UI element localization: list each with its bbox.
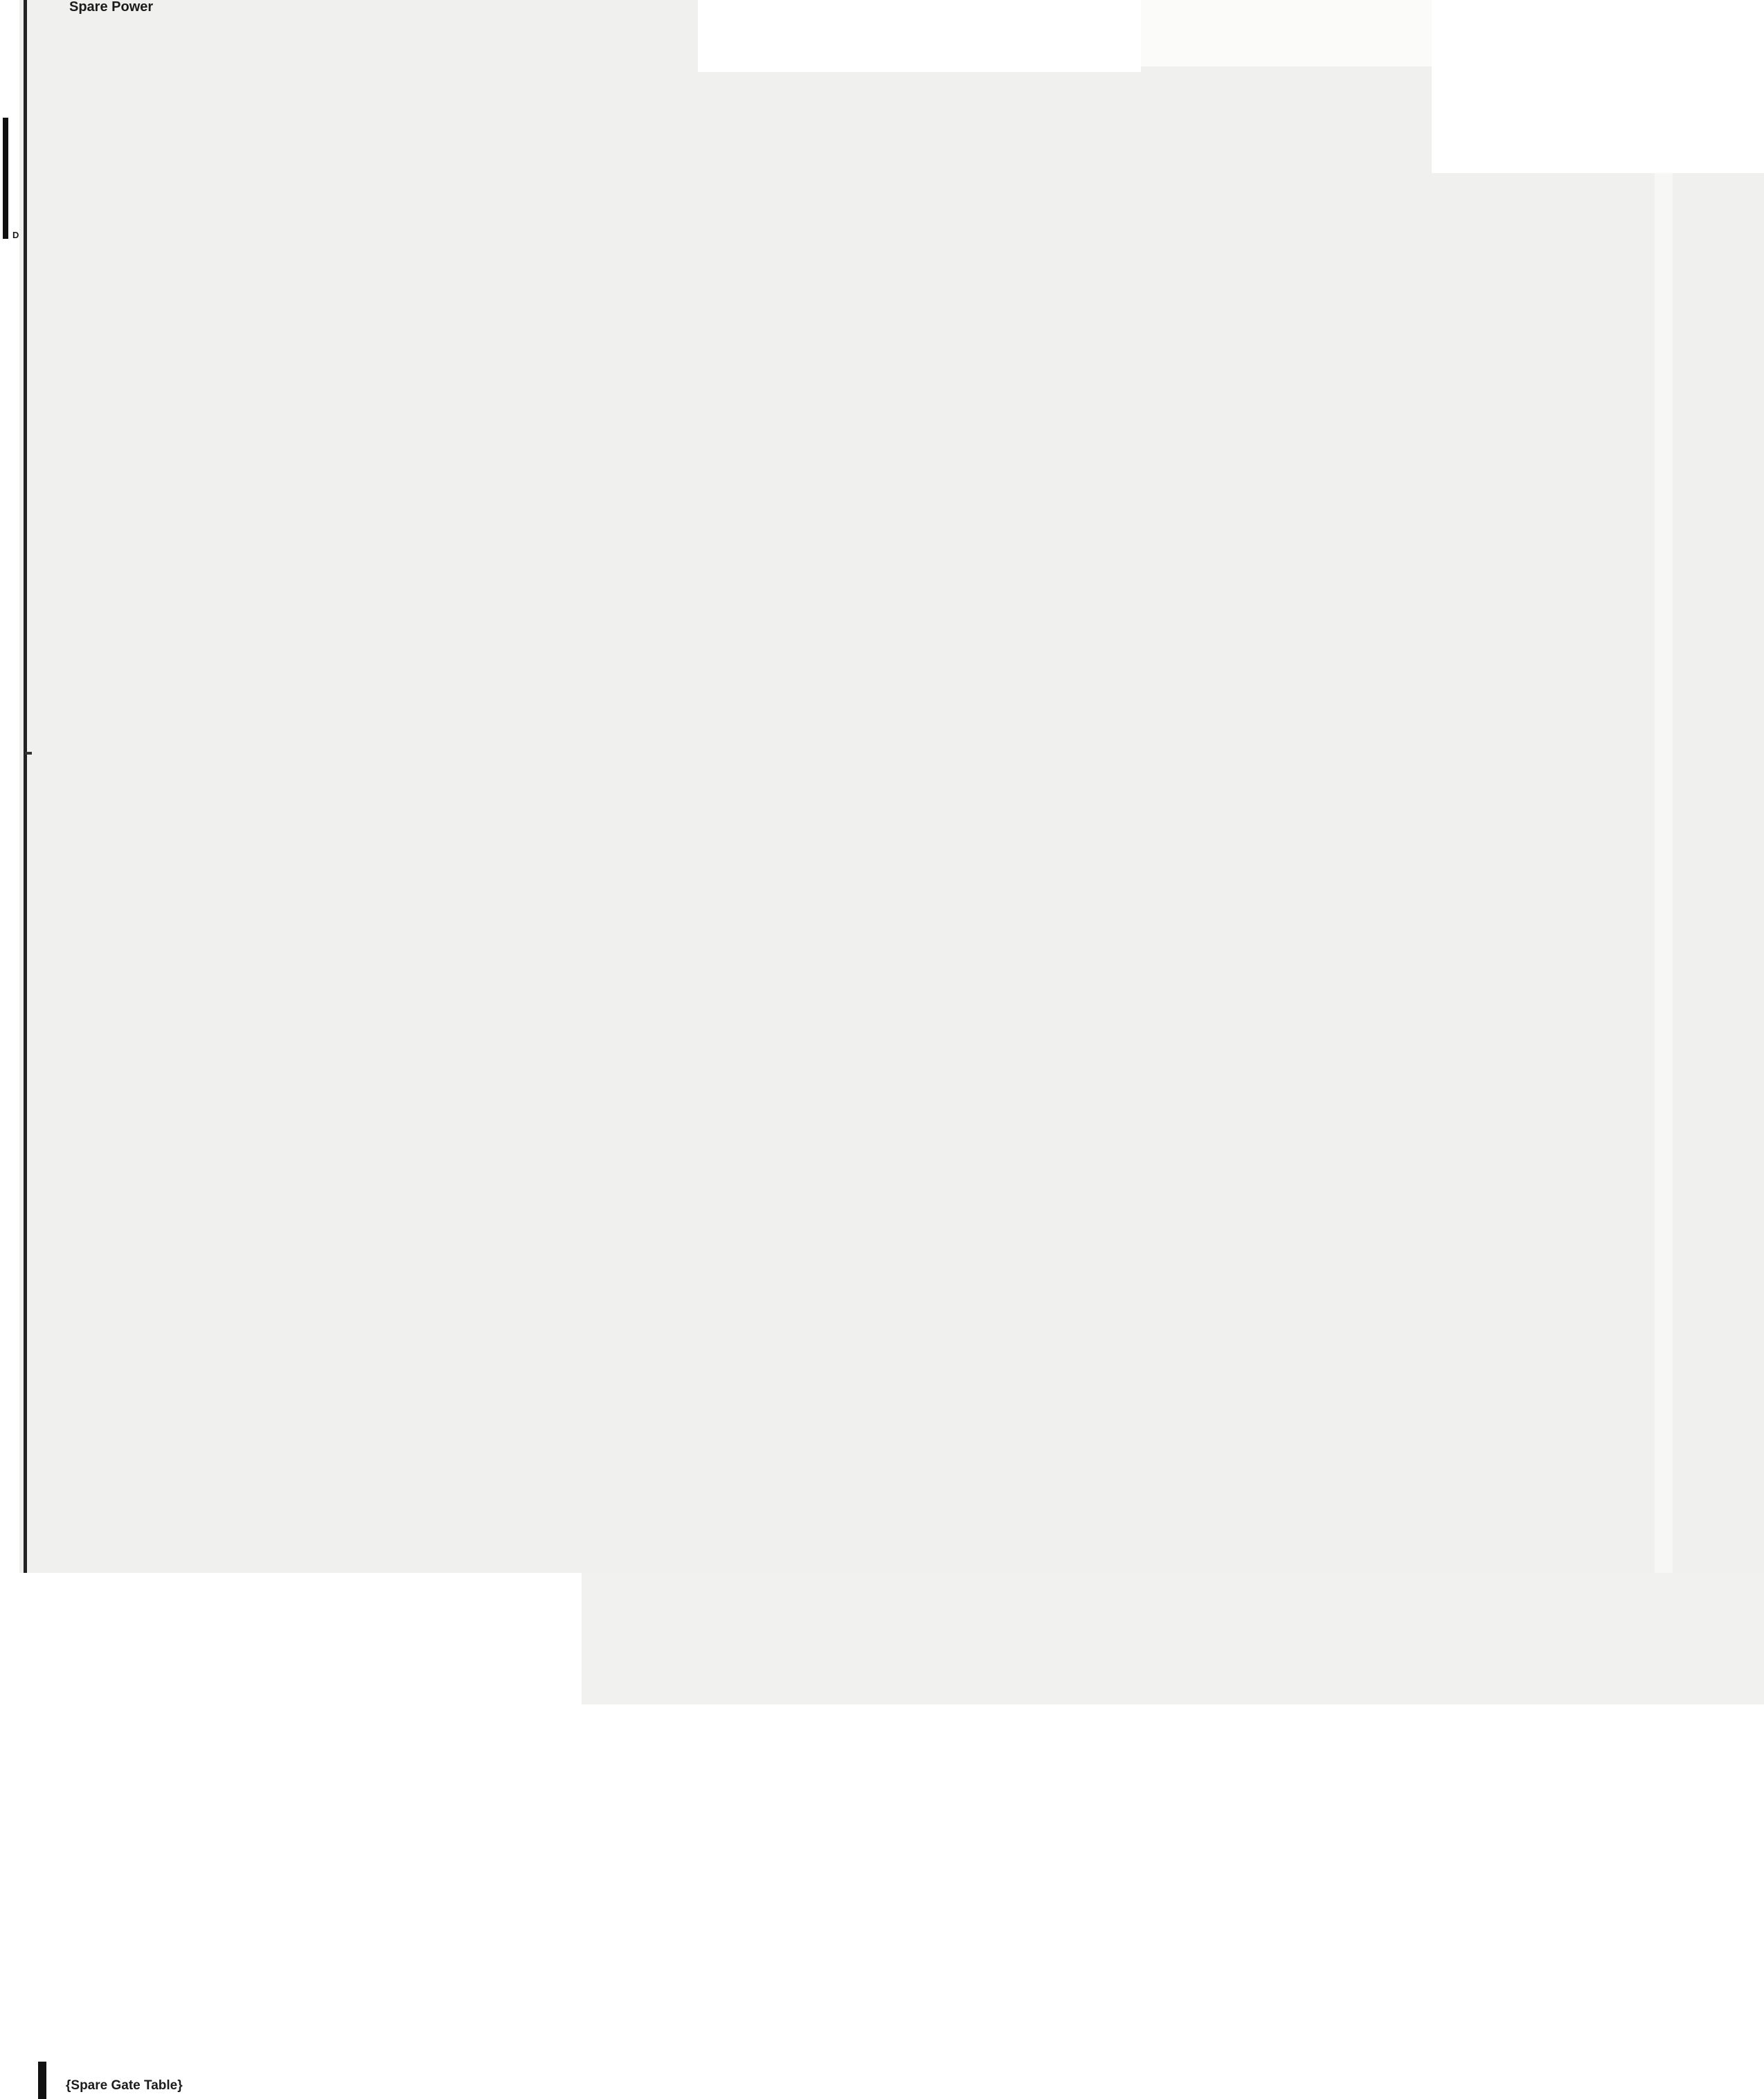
svg-text:{Spare Gate Table}: {Spare Gate Table} <box>66 2078 183 2093</box>
bottom left bar <box>38 2062 46 2099</box>
scan mark 2 <box>25 752 32 755</box>
title <box>69 0 153 15</box>
svg-text:Spare Power: Spare Power <box>69 0 153 15</box>
scan corner mark <box>3 118 19 240</box>
svg-text:D: D <box>12 230 19 240</box>
spare gate table text <box>66 2078 183 2093</box>
scan edge bar <box>24 0 27 1573</box>
